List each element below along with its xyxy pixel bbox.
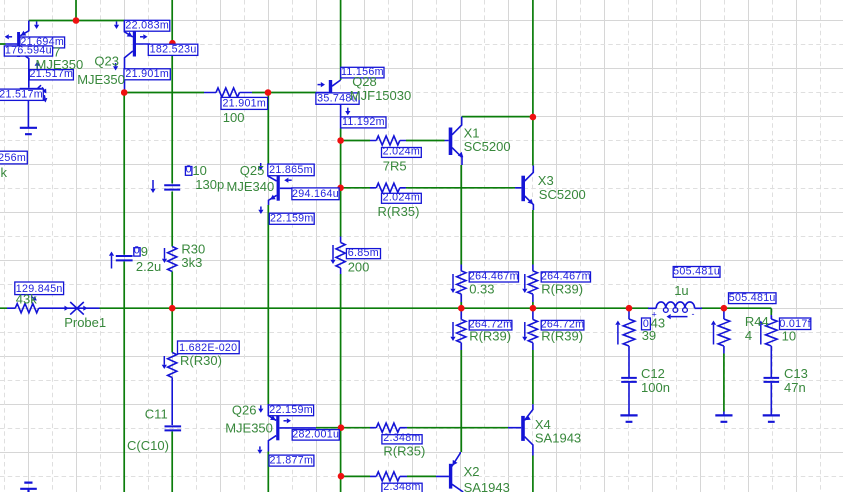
svg-text:130p: 130p	[195, 177, 224, 192]
svg-text:505.481u: 505.481u	[673, 266, 720, 278]
svg-text:9: 9	[141, 244, 148, 259]
svg-text:100: 100	[223, 110, 245, 125]
svg-text:SC5200: SC5200	[539, 187, 586, 202]
svg-text:Q28: Q28	[352, 74, 377, 89]
svg-text:21.901m: 21.901m	[125, 68, 169, 80]
svg-text:22.083m: 22.083m	[125, 20, 169, 32]
svg-text:2.2u: 2.2u	[136, 259, 161, 274]
svg-text:Q23: Q23	[94, 53, 119, 68]
svg-text:39: 39	[642, 328, 656, 343]
svg-text:0.33: 0.33	[469, 281, 494, 296]
svg-text:7R5: 7R5	[383, 159, 407, 174]
svg-text:C12: C12	[641, 366, 665, 381]
svg-text:SA1943: SA1943	[464, 480, 510, 492]
svg-text:2.024m: 2.024m	[383, 192, 420, 204]
svg-text:Q25: Q25	[240, 163, 265, 178]
svg-text:R(R30): R(R30)	[180, 353, 222, 368]
svg-text:MJE350: MJE350	[77, 72, 125, 87]
svg-text:1u: 1u	[674, 283, 688, 298]
svg-text:MJE350: MJE350	[225, 420, 273, 435]
svg-text:6.85m: 6.85m	[348, 247, 379, 259]
svg-text:21.256m: 21.256m	[0, 152, 26, 164]
svg-text:282.001u: 282.001u	[292, 428, 339, 440]
svg-text:SA1943: SA1943	[535, 430, 581, 445]
svg-text:505.481u: 505.481u	[729, 292, 776, 304]
svg-text:R(R35): R(R35)	[378, 204, 420, 219]
svg-text:11.192m: 11.192m	[342, 116, 385, 128]
svg-text:21.877m: 21.877m	[270, 454, 314, 466]
svg-text:21.865m: 21.865m	[269, 164, 313, 176]
svg-text:176.594u: 176.594u	[5, 44, 52, 56]
svg-text:Probe1: Probe1	[64, 315, 106, 330]
svg-text:R(R39): R(R39)	[541, 281, 583, 296]
svg-text:4: 4	[745, 328, 752, 343]
svg-text:22.159m: 22.159m	[270, 213, 314, 225]
svg-text:2.348m: 2.348m	[383, 481, 420, 492]
svg-text:SC5200: SC5200	[464, 139, 511, 154]
svg-text:MJE340: MJE340	[227, 179, 275, 194]
svg-text:7: 7	[53, 45, 60, 60]
svg-text:10: 10	[782, 328, 796, 343]
svg-text:43k: 43k	[16, 292, 37, 307]
svg-text:0: 0	[134, 244, 140, 256]
svg-text:182.523u: 182.523u	[150, 44, 197, 56]
svg-text:k: k	[1, 165, 8, 180]
svg-text:Q26: Q26	[232, 402, 257, 417]
svg-text:0: 0	[186, 164, 192, 176]
svg-text:R(R35): R(R35)	[383, 443, 425, 458]
svg-text:294.164u: 294.164u	[292, 188, 339, 200]
svg-text:2.348m: 2.348m	[383, 432, 420, 444]
svg-text:22.159m: 22.159m	[269, 404, 313, 416]
svg-text:+: +	[652, 310, 657, 320]
svg-text:3k3: 3k3	[181, 255, 202, 270]
svg-text:100n: 100n	[641, 380, 670, 395]
svg-text:X2: X2	[464, 464, 480, 479]
svg-text:MJF15030: MJF15030	[350, 88, 411, 103]
svg-text:C(C10): C(C10)	[127, 438, 169, 453]
svg-text:R44: R44	[745, 314, 769, 329]
svg-text:21.517m: 21.517m	[0, 89, 43, 101]
svg-text:200: 200	[348, 260, 370, 275]
svg-text:R(R39): R(R39)	[541, 329, 583, 344]
svg-text:-: -	[692, 309, 695, 319]
svg-text:47n: 47n	[784, 380, 806, 395]
svg-text:R(R39): R(R39)	[469, 329, 511, 344]
svg-text:C13: C13	[784, 366, 808, 381]
svg-text:C11: C11	[145, 406, 168, 421]
svg-text:2.024m: 2.024m	[383, 146, 420, 158]
svg-text:21.901m: 21.901m	[222, 98, 266, 110]
svg-text:X3: X3	[538, 173, 554, 188]
